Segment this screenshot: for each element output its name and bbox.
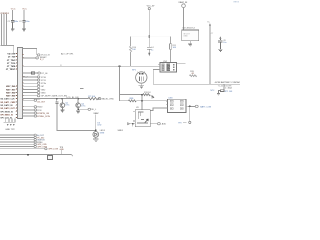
wire mute branch bbox=[120, 94, 143, 96]
svg-text:R13 1K: R13 1K bbox=[144, 92, 151, 94]
resistor R11 vertical bbox=[170, 37, 172, 44]
svg-text:ST11: ST11 bbox=[41, 80, 47, 82]
CN3 pins left column bbox=[170, 100, 173, 109]
wire bar bbox=[3, 121, 15, 123]
wire ST rows bbox=[22, 77, 37, 96]
node flags ST rows bbox=[37, 76, 40, 97]
junction bbox=[62, 98, 64, 100]
current source D3 bbox=[93, 132, 99, 138]
svg-text:JT_TRST: JT_TRST bbox=[6, 69, 16, 71]
svg-text:VBAT: VBAT bbox=[93, 112, 99, 115]
ground marks bbox=[7, 124, 15, 126]
svg-text:JT_TMS: JT_TMS bbox=[7, 66, 16, 68]
ground bbox=[11, 29, 15, 31]
junction bbox=[141, 100, 143, 102]
wire bbox=[1, 14, 3, 45]
svg-text:ST1b: ST1b bbox=[41, 83, 47, 85]
ground bbox=[22, 29, 26, 31]
U3 left pin stubs bbox=[133, 111, 135, 121]
svg-text:VIB1: VIB1 bbox=[129, 98, 134, 100]
ground bbox=[76, 111, 80, 113]
op-amp U3 body bbox=[135, 110, 150, 127]
ground bbox=[218, 49, 222, 51]
capacitor C2 bbox=[22, 20, 25, 28]
speaker SP1 bbox=[136, 72, 147, 83]
transistor Q2 bbox=[77, 99, 79, 103]
svg-text:R_2: R_2 bbox=[40, 59, 45, 61]
svg-text:KEY_IN0: KEY_IN0 bbox=[6, 86, 16, 88]
node AUD flag bbox=[158, 123, 161, 125]
junction bbox=[119, 66, 121, 68]
svg-text:SD_DAT1_CMD: SD_DAT1_CMD bbox=[0, 101, 15, 104]
U1 left pin stubs group1 bbox=[16, 54, 18, 70]
svg-text:R600: R600 bbox=[37, 107, 43, 109]
svg-text:SD_DAT3_OUT: SD_DAT3_OUT bbox=[0, 107, 15, 110]
svg-text:4 x AAA: 4 x AAA bbox=[225, 87, 232, 90]
wire speaker stubs bbox=[138, 71, 145, 73]
wire right rail bbox=[209, 26, 211, 85]
svg-text:TP3: TP3 bbox=[178, 122, 181, 124]
junction bbox=[189, 106, 191, 108]
svg-text:NTC: NTC bbox=[211, 90, 216, 92]
svg-text:DTC: DTC bbox=[65, 105, 70, 107]
node BATT_CON flag bbox=[195, 105, 198, 107]
svg-text:JT_TDO: JT_TDO bbox=[7, 60, 16, 62]
wire PO row bbox=[22, 99, 34, 101]
wire bbox=[183, 8, 185, 31]
svg-text:SD_DAT2_IN: SD_DAT2_IN bbox=[0, 104, 13, 107]
wire bbox=[78, 108, 88, 110]
thermistor RT1 bbox=[223, 84, 225, 89]
wire flag row5 bbox=[0, 143, 34, 145]
small tick bbox=[80, 88, 84, 90]
U1 left pin stubs group2 bbox=[16, 86, 18, 96]
svg-text:SND1: SND1 bbox=[118, 130, 124, 132]
svg-text:R7 100: R7 100 bbox=[88, 96, 96, 98]
U1 left pin labels group1 bbox=[6, 54, 16, 72]
ground arrow small bbox=[151, 95, 154, 98]
resistor R4 inline bbox=[32, 72, 35, 74]
wire CN3 out bbox=[188, 105, 195, 107]
ground bbox=[188, 41, 192, 47]
svg-text:KEY_IN1: KEY_IN1 bbox=[6, 89, 16, 91]
svg-text:BTNNL_RON: BTNNL_RON bbox=[37, 116, 50, 118]
svg-text:GN2: GN2 bbox=[41, 89, 46, 91]
CN3 pins right column bbox=[180, 100, 183, 109]
resistor R10 vertical bbox=[130, 37, 132, 47]
wire flag row7 bbox=[0, 148, 45, 150]
U1 left pin labels group2 bbox=[6, 86, 16, 98]
svg-text:GND TP2: GND TP2 bbox=[5, 129, 15, 131]
wire flag row6 bbox=[0, 146, 34, 148]
IC U1 body bbox=[17, 48, 22, 119]
svg-text:VCC: VCC bbox=[11, 9, 16, 11]
wire flag row3 bbox=[0, 139, 34, 141]
resistor R12 VIB bbox=[129, 100, 137, 102]
node VCC3_IO flag bbox=[37, 54, 40, 56]
wire output bbox=[150, 123, 157, 125]
wire backlight row bbox=[22, 98, 88, 100]
wire bbox=[3, 14, 5, 45]
node CLK_OUT flag bbox=[38, 72, 41, 74]
U1 left pin labels group3 bbox=[0, 98, 15, 120]
junction bbox=[77, 109, 79, 111]
junction bbox=[132, 123, 134, 125]
svg-text:GPF_LOW: GPF_LOW bbox=[48, 149, 58, 151]
svg-text:BATT_CON: BATT_CON bbox=[200, 106, 211, 109]
svg-text:BACKL_EN5: BACKL_EN5 bbox=[102, 98, 115, 101]
svg-text:BTNPW_ON: BTNPW_ON bbox=[37, 113, 49, 115]
wire main 3V rail bbox=[148, 10, 150, 48]
ground bbox=[217, 94, 220, 96]
ground bbox=[93, 137, 98, 141]
CN2 pins left column bbox=[162, 64, 165, 71]
svg-text:U3: U3 bbox=[136, 107, 140, 109]
crystal Y1 bbox=[49, 155, 52, 156]
svg-text:GP: GP bbox=[41, 86, 45, 88]
U1 pin number ticks bbox=[16, 48, 24, 118]
wire bbox=[60, 150, 62, 154]
wire bbox=[6, 14, 8, 45]
svg-text:AUD: AUD bbox=[162, 123, 167, 126]
transistor Q3 bbox=[145, 119, 148, 122]
CN3 pin stubs bbox=[166, 101, 188, 108]
node SD_LED flag bbox=[88, 108, 91, 110]
U1 left pin stubs group3 bbox=[16, 99, 18, 118]
svg-text:KEY_IN3: KEY_IN3 bbox=[6, 96, 16, 98]
power flag arrow C8 bbox=[219, 36, 221, 39]
svg-text:ALT_OF GP1: ALT_OF GP1 bbox=[61, 52, 74, 55]
svg-text:VCC_3V: VCC_3V bbox=[147, 5, 155, 7]
wire long speaker feed bbox=[22, 65, 158, 67]
wire CN2 right out bbox=[178, 63, 185, 65]
wire flag row1 bbox=[0, 134, 34, 136]
connector CN2 body bbox=[160, 62, 176, 72]
svg-text:U2 LM1117-3: U2 LM1117-3 bbox=[182, 28, 195, 30]
svg-text:DTC: DTC bbox=[81, 105, 86, 107]
svg-text:KEY_IN2: KEY_IN2 bbox=[6, 92, 16, 94]
wire bbox=[120, 100, 166, 102]
svg-text:1u: 1u bbox=[151, 49, 153, 51]
CN2 pin stubs bbox=[158, 64, 178, 70]
svg-text:SPI_MOSI_IO: SPI_MOSI_IO bbox=[0, 111, 13, 113]
node RESET flag bbox=[36, 57, 39, 59]
CN2 pins right column bbox=[167, 64, 170, 71]
wire flag row2 bbox=[0, 136, 34, 138]
svg-text:10K: 10K bbox=[132, 49, 136, 51]
svg-text:SPI_MISO_IO: SPI_MISO_IO bbox=[0, 115, 13, 117]
junction bbox=[141, 94, 143, 96]
wire into amp bbox=[141, 95, 143, 110]
U3 internals bbox=[137, 112, 148, 123]
connector CN3 body bbox=[168, 99, 186, 112]
resistor R7 bbox=[88, 97, 99, 99]
ground bbox=[60, 108, 64, 113]
svg-text:ST10: ST10 bbox=[41, 77, 47, 79]
power flag arrow bbox=[209, 23, 211, 26]
svg-text:SP1: SP1 bbox=[132, 69, 137, 71]
test point TP3 bbox=[189, 121, 191, 123]
wire bus into U1 bbox=[1, 46, 16, 54]
ground bbox=[139, 86, 144, 88]
wire bbox=[12, 10, 14, 20]
svg-text:GND: GND bbox=[60, 149, 65, 151]
svg-text:ST_06: ST_06 bbox=[41, 73, 48, 75]
svg-text:JT_TDI: JT_TDI bbox=[8, 57, 16, 59]
svg-text:RT1 10K: RT1 10K bbox=[225, 91, 233, 93]
node PO flag bbox=[34, 99, 37, 101]
junction bbox=[95, 130, 97, 132]
resistor R13 bbox=[143, 94, 150, 96]
svg-text:GRN: GRN bbox=[100, 132, 105, 134]
transistor Q1 bbox=[61, 99, 63, 103]
svg-text:10K: 10K bbox=[173, 47, 177, 49]
CN2 right inner pins bbox=[173, 64, 175, 70]
capacitor C9 bbox=[147, 47, 151, 53]
capacitor C1 bbox=[11, 20, 14, 28]
svg-text:SD_DAT0_CLK: SD_DAT0_CLK bbox=[0, 98, 15, 101]
svg-text:VD_IO1: VD_IO1 bbox=[7, 54, 16, 56]
wire flag row4 bbox=[0, 141, 34, 143]
svg-text:V+: V+ bbox=[207, 21, 210, 23]
power port circle bbox=[148, 8, 150, 10]
svg-text:LB_OUT: LB_OUT bbox=[37, 101, 46, 103]
junction bbox=[27, 154, 29, 156]
junction bbox=[149, 36, 151, 38]
wire branch down bbox=[119, 66, 121, 101]
regulator U2 body bbox=[182, 30, 199, 41]
junction bbox=[56, 98, 58, 100]
svg-text:VCC: VCC bbox=[22, 9, 27, 11]
node BACKL_EN flag bbox=[97, 98, 100, 100]
svg-text:GND: GND bbox=[183, 36, 188, 38]
svg-text:SPI_CLK_IO: SPI_CLK_IO bbox=[0, 118, 12, 120]
svg-text:PO8: PO8 bbox=[37, 110, 42, 112]
resistor R15 bbox=[189, 75, 196, 77]
wire bbox=[95, 115, 97, 132]
power port bbox=[182, 4, 186, 8]
svg-text:GND: GND bbox=[41, 93, 46, 95]
svg-text:VD3: VD3 bbox=[5, 13, 9, 15]
wire bbox=[140, 83, 142, 85]
wire bottom rows bbox=[22, 107, 34, 116]
input flag bbox=[128, 123, 130, 125]
svg-text:C7: C7 bbox=[211, 33, 213, 35]
svg-text:C2: C2 bbox=[19, 21, 23, 23]
svg-text:GP_BUFF_GATE_OUT_EN: GP_BUFF_GATE_OUT_EN bbox=[41, 95, 67, 98]
svg-text:VBAT_IN: VBAT_IN bbox=[178, 1, 187, 4]
svg-text:LED: LED bbox=[97, 125, 101, 127]
wire down to test point bbox=[189, 106, 191, 121]
capacitor C8 bbox=[218, 39, 222, 49]
wire L route bbox=[57, 104, 96, 131]
wire bbox=[22, 72, 37, 74]
ground arrow bbox=[148, 53, 150, 56]
svg-text:SD_L: SD_L bbox=[91, 109, 97, 111]
node flags bottom rows bbox=[34, 106, 37, 117]
wire bottom rail bbox=[0, 154, 72, 156]
svg-text:C1: C1 bbox=[8, 21, 12, 23]
wire RESET bbox=[22, 57, 35, 59]
junction bbox=[77, 98, 79, 100]
svg-text:4-PIN BATTERY CONTACT: 4-PIN BATTERY CONTACT bbox=[215, 81, 240, 84]
svg-text:JT_TCK: JT_TCK bbox=[7, 63, 16, 65]
wire bbox=[23, 10, 25, 20]
wire CN2 bottom loop to battery rail bbox=[153, 70, 240, 85]
svg-text:REV3: REV3 bbox=[234, 1, 240, 3]
capacitor C6 bbox=[55, 99, 58, 104]
svg-text:100n: 100n bbox=[25, 21, 30, 23]
svg-text:10u: 10u bbox=[223, 42, 226, 44]
wire pin loop VCC3 bbox=[22, 49, 36, 55]
wire faint rail bbox=[131, 36, 171, 38]
wire amp to connector bbox=[150, 108, 166, 111]
U1 bottom test pins bbox=[6, 118, 15, 122]
wire bbox=[130, 123, 136, 125]
